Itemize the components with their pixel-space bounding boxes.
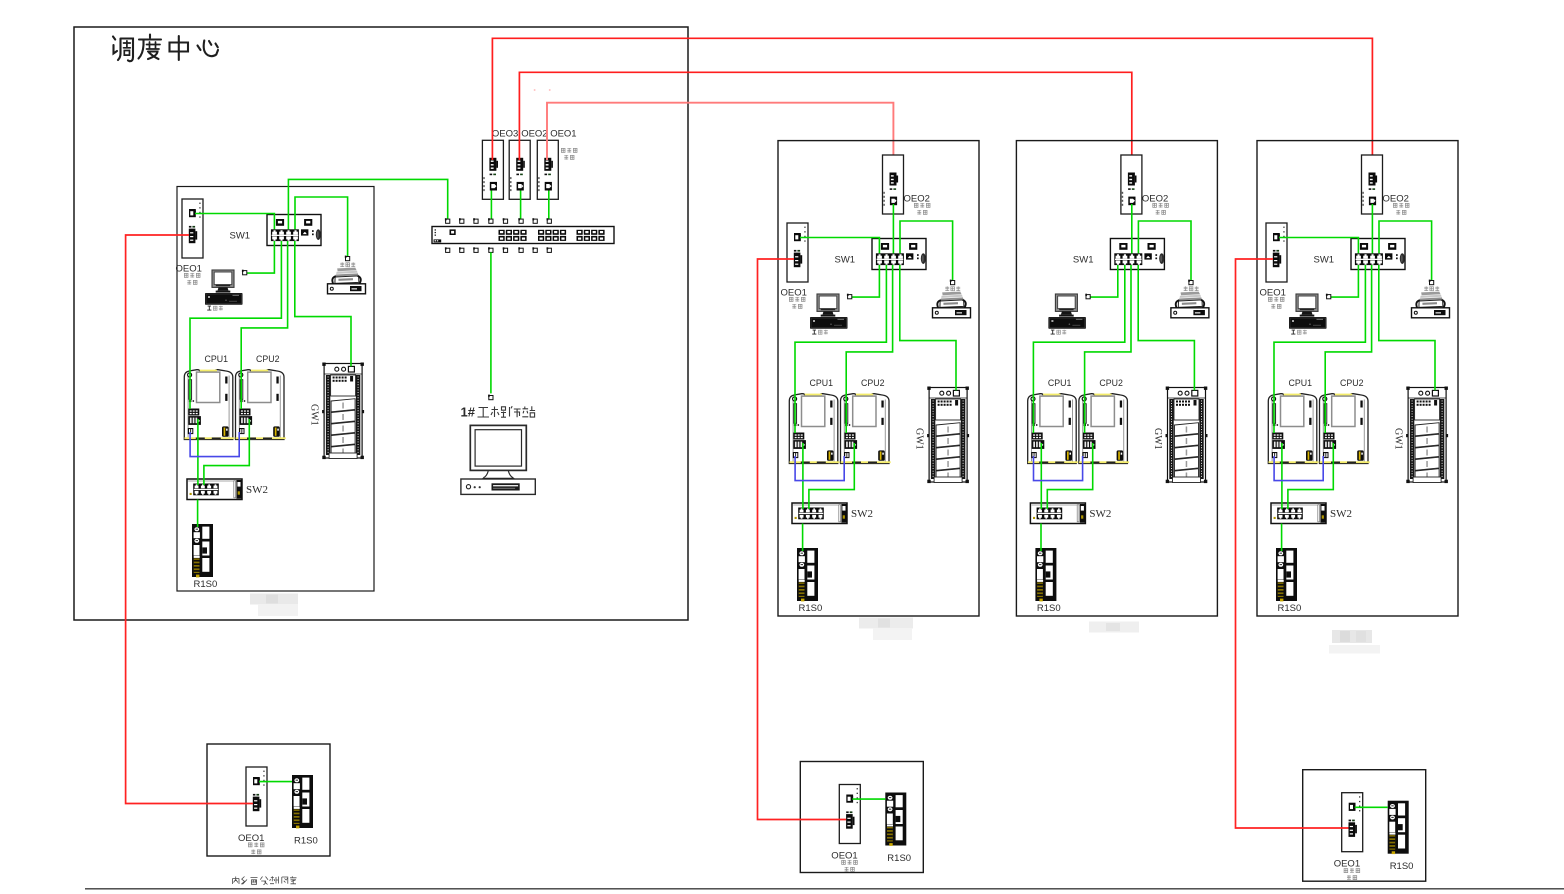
red fiber line A (OEO3 to station4) xyxy=(492,38,1372,176)
patch bar RJ45 port groups xyxy=(499,230,605,241)
watermark smudge (station4) xyxy=(1329,630,1380,654)
dispatch inner station box xyxy=(177,187,374,592)
station4 OEO2 xyxy=(1362,155,1410,253)
station 4 equipment xyxy=(1260,155,1450,614)
svg-text:OEO2: OEO2 xyxy=(521,129,547,140)
valve room box 3 xyxy=(1303,770,1426,882)
dispatch station equipment xyxy=(184,197,365,590)
fiber patch panel bar xyxy=(432,227,614,244)
char 心 xyxy=(198,41,219,57)
wire patch bar to engineer station xyxy=(490,252,492,393)
watermark smudge (station2) xyxy=(859,618,913,641)
station3 OEO2 xyxy=(1121,155,1169,253)
wire OEO2 to patch bar xyxy=(520,191,522,220)
station 3 equipment (no OEO1) xyxy=(1028,155,1209,614)
char 中 xyxy=(170,36,189,60)
top OEO2 converter xyxy=(509,140,530,199)
station4 OEO1 xyxy=(1260,223,1359,309)
station2 OEO1 xyxy=(781,223,880,309)
station 2 box xyxy=(778,141,979,616)
stray red dots xyxy=(534,89,536,90)
red feeder line to valve room 3 xyxy=(1236,259,1349,828)
wire OEO3 to patch bar xyxy=(490,191,492,220)
dispatch center outer box xyxy=(74,27,688,620)
red feeder line to valve room 1 xyxy=(126,235,253,804)
red fiber line B (OEO2 to station3) xyxy=(519,72,1131,176)
svg-text:OEO3: OEO3 xyxy=(492,129,518,140)
wire OEO1 to patch bar xyxy=(548,191,550,220)
dispatch OEO1 converter xyxy=(176,199,275,285)
station 2 equipment xyxy=(781,155,971,614)
engineer station tap point xyxy=(488,395,493,400)
red feeder line to valve room 2 xyxy=(758,259,847,820)
char 调 xyxy=(113,37,117,54)
bottom rule line xyxy=(85,888,1564,890)
top OEO1 converter xyxy=(537,140,558,199)
station2 OEO2 xyxy=(883,155,931,253)
valve room box 1 xyxy=(207,744,330,856)
top OEO3 converter xyxy=(482,140,503,199)
svg-text:OEO1: OEO1 xyxy=(550,129,576,140)
title 调度中心 xyxy=(113,35,218,62)
wire dispatch SW1 to fiber patch bar xyxy=(288,179,447,229)
watermark smudge (station3) xyxy=(1089,622,1139,633)
engineer station label 1#工程师站 xyxy=(461,405,536,420)
engineer station computer xyxy=(461,425,535,494)
char 度 xyxy=(139,35,162,59)
station 3 box xyxy=(1016,141,1217,616)
red fiber line C (OEO1 to station2) xyxy=(547,103,893,176)
patch bar connector squares top row xyxy=(445,218,552,223)
station 4 box xyxy=(1257,141,1458,616)
valve room box 2 xyxy=(800,762,923,873)
caption 内乡西分输阀室 xyxy=(233,876,297,885)
svg-text:1#: 1# xyxy=(461,405,476,420)
watermark smudge (dispatch) xyxy=(250,594,298,617)
patch bar connector squares bottom row xyxy=(445,247,552,252)
